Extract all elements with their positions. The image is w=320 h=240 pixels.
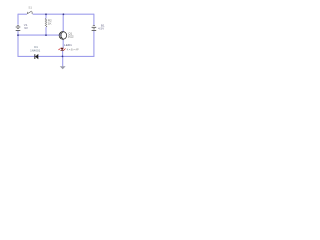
svg-text:2N2222: 2N2222 — [68, 35, 74, 39]
svg-text:4.=.B.=.4P: 4.=.B.=.4P — [67, 49, 79, 52]
svg-text:4.5V: 4.5V — [98, 26, 104, 30]
svg-text:1K: 1K — [48, 21, 52, 25]
svg-text:9V: 9V — [24, 26, 28, 30]
svg-text:1N4001: 1N4001 — [30, 48, 41, 52]
svg-text:LED1: LED1 — [64, 43, 72, 47]
svg-text:S1: S1 — [28, 5, 32, 9]
